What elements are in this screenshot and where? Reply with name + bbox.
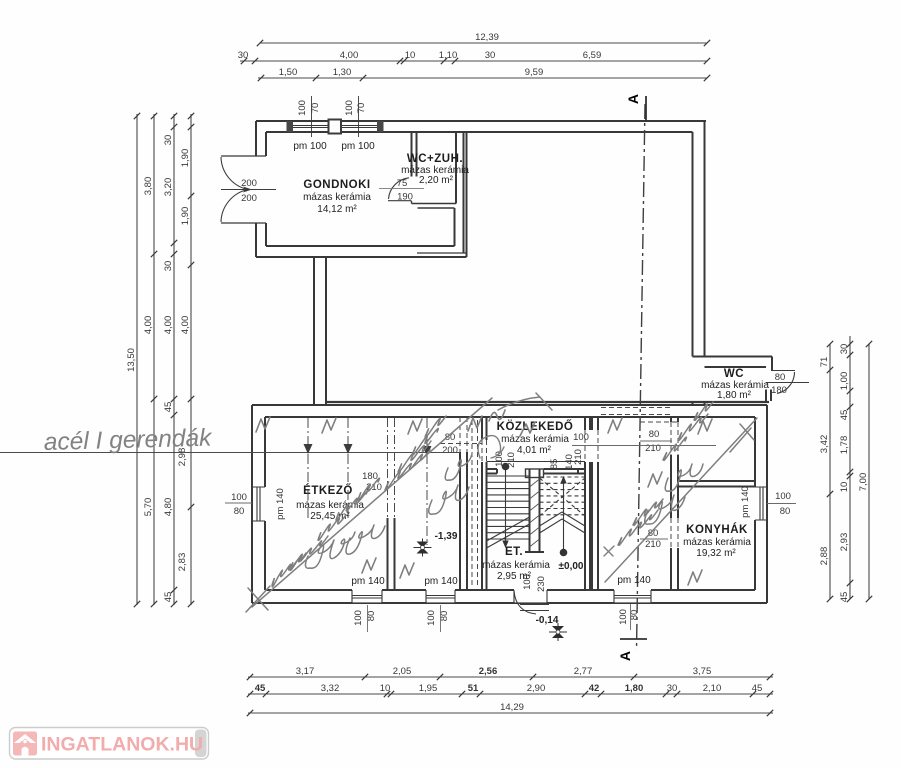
- svg-text:acél I gerendák: acél I gerendák: [43, 425, 213, 456]
- shaft dashed lines: [472, 420, 478, 588]
- svg-text:3,80: 3,80: [143, 177, 154, 196]
- section line dash-dot: [637, 104, 646, 650]
- svg-text:pm 140: pm 140: [740, 486, 751, 518]
- svg-text:45: 45: [163, 592, 174, 603]
- beam dash-dot line 2: [347, 418, 349, 520]
- svg-text:pm 100: pm 100: [293, 141, 327, 152]
- svg-text:45: 45: [163, 402, 174, 413]
- svg-text:85: 85: [549, 459, 560, 470]
- bottom wall outer white gaps for windows: [352, 591, 382, 602]
- svg-text:INGATLANOK.HU: INGATLANOK.HU: [41, 734, 203, 756]
- svg-text:GONDNOKI: GONDNOKI: [303, 179, 370, 191]
- gondnoki left wall inner: [265, 132, 267, 246]
- svg-text:2,56: 2,56: [479, 666, 498, 677]
- svg-text:WC+ZUH.: WC+ZUH.: [407, 153, 463, 165]
- kozlekedo left wall gate squiggle: [478, 436, 504, 458]
- svg-text:1,95: 1,95: [419, 683, 438, 694]
- pen check V marks: [256, 417, 270, 432]
- courtyard bottom line: [326, 401, 702, 403]
- svg-text:mázas kerámia: mázas kerámia: [501, 434, 569, 445]
- cursive band lower (k nos...): [272, 553, 306, 587]
- svg-text:mázas kerámia: mázas kerámia: [482, 560, 550, 571]
- svg-text:70: 70: [356, 103, 367, 114]
- bottom dim line 2: [248, 693, 773, 695]
- WC box top wall: [693, 356, 773, 358]
- entry door arc at bottom: [514, 591, 536, 614]
- wc door label/leader line: [766, 382, 809, 384]
- cursive loop cluster (elb..): [305, 532, 355, 568]
- svg-text:14,12 m²: 14,12 m²: [317, 204, 357, 215]
- svg-text:-0,14: -0,14: [536, 615, 559, 626]
- wc+zuh right wall: [455, 132, 457, 204]
- bottom dim line 1: [248, 676, 773, 678]
- svg-text:100: 100: [618, 609, 629, 625]
- left walking line: [505, 468, 507, 546]
- gondnoki bottom wall inner: [266, 245, 455, 247]
- svg-text:30: 30: [485, 50, 496, 61]
- svg-text:30: 30: [667, 683, 678, 694]
- svg-text:210: 210: [645, 539, 661, 550]
- svg-text:100: 100: [344, 100, 355, 116]
- wc+zuh door arc: [389, 178, 410, 199]
- svg-text:200: 200: [241, 193, 257, 204]
- logo house icon: [13, 732, 37, 756]
- middle room right wall: [460, 452, 467, 590]
- svg-text:4,00: 4,00: [163, 316, 174, 335]
- svg-text:100: 100: [426, 610, 437, 626]
- gondnoki double door arcs: [221, 157, 248, 190]
- right flight treads dashed: [540, 477, 586, 515]
- top dim line 1 (12,39): [260, 42, 707, 44]
- svg-text:42: 42: [589, 683, 600, 694]
- svg-text:3,42: 3,42: [819, 435, 830, 454]
- stair mid divider: [525, 469, 544, 552]
- svg-text:10: 10: [839, 482, 850, 493]
- svg-text:13,50: 13,50: [126, 348, 137, 372]
- right exterior wall outer: [704, 121, 706, 357]
- right wall window: [755, 487, 767, 520]
- konyhak loop cluster: [645, 495, 685, 524]
- beam arrow 2: [344, 444, 353, 454]
- svg-text:210: 210: [645, 443, 661, 454]
- wc door arc (right): [777, 372, 795, 394]
- beam arrow 1: [304, 444, 313, 454]
- gondnoki bottom wall step line: [417, 252, 467, 254]
- bottom window 1: [352, 590, 382, 603]
- svg-text:7,00: 7,00: [858, 473, 869, 492]
- svg-text:30: 30: [163, 261, 174, 272]
- svg-text:80: 80: [234, 506, 245, 517]
- wc+zuh left wall pair: [412, 132, 417, 177]
- left dim line 2: [153, 114, 155, 605]
- gondnoki left wall outer: [255, 121, 257, 257]
- corridor top door divider: [640, 440, 672, 442]
- lower block bottom wall outer: [252, 602, 767, 604]
- left dim line 1 (13,50): [136, 114, 138, 605]
- svg-text:30: 30: [163, 135, 174, 146]
- top wall window 1 glass lines: [293, 125, 329, 127]
- tick slashes: [134, 40, 872, 716]
- svg-text:2,10: 2,10: [703, 683, 722, 694]
- entry steps: [520, 605, 549, 611]
- svg-text:9,59: 9,59: [525, 67, 544, 78]
- svg-text:30: 30: [238, 50, 249, 61]
- svg-text:2,05: 2,05: [393, 666, 412, 677]
- svg-text:45: 45: [752, 683, 763, 694]
- long extension line through corridor: [572, 445, 716, 447]
- svg-text:pm 100: pm 100: [341, 141, 375, 152]
- svg-text:45: 45: [839, 592, 850, 603]
- corridor top door dashes: [601, 408, 671, 415]
- wc+zuh door open leaf: [388, 200, 412, 202]
- svg-text:ET.: ET.: [505, 546, 523, 558]
- right exterior wall inner: [692, 132, 694, 357]
- right dim line 3 (7,00): [868, 344, 870, 599]
- right flight break V: [540, 512, 586, 533]
- konyhak cursive band 2: [663, 437, 686, 460]
- left dim line 4: [190, 114, 192, 605]
- svg-text:51: 51: [468, 683, 479, 694]
- svg-text:ÉTKEZŐ: ÉTKEZŐ: [303, 484, 353, 497]
- kozlekedo landing edge line: [487, 461, 586, 463]
- svg-text:12,39: 12,39: [475, 32, 499, 43]
- cursive band upper right (dense): [385, 450, 430, 490]
- konyhak arrow on diagonal: [730, 424, 754, 452]
- svg-text:140: 140: [564, 454, 575, 470]
- svg-text:80: 80: [780, 506, 791, 517]
- kozlekedo right wall pairs: [585, 417, 598, 430]
- lower block top wall inner: [265, 416, 755, 418]
- svg-text:pm 140: pm 140: [351, 576, 385, 587]
- right dim line 1: [829, 344, 831, 599]
- wc+zuh door label line: [379, 188, 424, 190]
- svg-text:100: 100: [353, 610, 364, 626]
- left walking dot: [502, 463, 510, 471]
- etkezo diagonal top continuation: [498, 393, 552, 410]
- svg-text:10: 10: [405, 50, 416, 61]
- svg-text:19,32 m²: 19,32 m²: [696, 548, 736, 559]
- corridor mid door divider: [640, 538, 668, 540]
- top block: top wall inner: [266, 131, 693, 133]
- gondnoki door center line: [221, 189, 276, 191]
- left window label divider: [225, 502, 252, 504]
- svg-text:mázas kerámia: mázas kerámia: [303, 192, 371, 203]
- svg-text:5,70: 5,70: [143, 498, 154, 517]
- beam dash-dot line 1: [307, 418, 309, 520]
- right walking dot: [560, 549, 568, 557]
- svg-text:100: 100: [775, 491, 791, 502]
- svg-text:2,88: 2,88: [819, 547, 830, 566]
- svg-text:80: 80: [775, 372, 786, 383]
- beam dash-dot line 3: [426, 418, 428, 545]
- cursive band mid: [318, 515, 346, 540]
- dim labels: [126, 32, 869, 713]
- window extension lines: [311, 96, 313, 137]
- svg-text:1,00: 1,00: [839, 372, 850, 391]
- svg-text:3,20: 3,20: [163, 178, 174, 197]
- svg-text:45: 45: [839, 410, 850, 421]
- lower block left wall: [252, 405, 265, 603]
- window piers (solid): [287, 121, 294, 132]
- courtyard left wall double: [314, 257, 326, 405]
- svg-text:80: 80: [649, 429, 660, 440]
- etkezo partition opening: [388, 418, 395, 518]
- stairwell top wall stubs: [487, 469, 586, 474]
- svg-text:200: 200: [241, 178, 257, 189]
- svg-text:230: 230: [536, 576, 547, 592]
- svg-text:mázas kerámia: mázas kerámia: [683, 537, 751, 548]
- section mark bottom: [620, 638, 647, 640]
- svg-text:100: 100: [522, 574, 533, 590]
- svg-text:4,01 m²: 4,01 m²: [517, 445, 552, 456]
- right walking line: [563, 479, 565, 551]
- lower block right wall: [755, 405, 767, 603]
- bottom window label dividers: [367, 605, 369, 632]
- lower block bottom wall inner (with openings): [265, 589, 755, 591]
- svg-text:30: 30: [839, 344, 850, 355]
- svg-text:A: A: [625, 94, 641, 104]
- marker near -0,14: [549, 623, 567, 641]
- svg-text:2,90: 2,90: [527, 683, 546, 694]
- left flight break lines: [487, 517, 530, 548]
- etkezo partition wall: [388, 518, 395, 590]
- svg-text:1,78: 1,78: [839, 436, 850, 455]
- right walking arrow: [560, 476, 566, 484]
- marker near -1,39: [414, 539, 432, 557]
- svg-text:2,83: 2,83: [177, 553, 188, 572]
- WC box bottom wall: [702, 401, 769, 403]
- WC step below door: [766, 390, 771, 402]
- svg-text:pm 140: pm 140: [275, 488, 286, 520]
- svg-text:71: 71: [819, 357, 830, 368]
- svg-text:pm 140: pm 140: [617, 575, 651, 586]
- wc+zuh bottom wall with jamb step: [412, 201, 457, 208]
- svg-text:1,50: 1,50: [279, 67, 298, 78]
- wc door leaf: [772, 370, 795, 372]
- svg-text:pm 140: pm 140: [424, 576, 458, 587]
- left flight treads: [487, 476, 530, 539]
- wall below wc+zuh: [454, 208, 456, 246]
- svg-text:4,00: 4,00: [143, 316, 154, 335]
- svg-text:4,80: 4,80: [163, 498, 174, 517]
- left dim line 3: [173, 114, 175, 605]
- door jambs left (open leaves): [221, 155, 266, 157]
- left walking arrow: [502, 541, 508, 549]
- svg-text:1,10: 1,10: [439, 50, 458, 61]
- svg-text:200: 200: [442, 445, 458, 456]
- bottom window 3 (corridor): [614, 590, 651, 603]
- right window label divider: [767, 503, 796, 505]
- svg-text:2,93: 2,93: [839, 533, 850, 552]
- lower block top wall outer: [252, 404, 767, 406]
- pen arrow in corridor: [604, 546, 614, 556]
- middle room right wall opening: [460, 417, 467, 452]
- svg-text:1,90: 1,90: [180, 207, 191, 226]
- svg-text:100: 100: [231, 492, 247, 503]
- stair/kozlekedo left wall: [482, 417, 487, 590]
- svg-text:180: 180: [771, 385, 787, 396]
- svg-text:1,80 m²: 1,80 m²: [717, 390, 752, 401]
- svg-text:1,80: 1,80: [625, 683, 644, 694]
- konyhak sub-room divider wall: [678, 480, 755, 482]
- WC box right wall: [771, 357, 773, 372]
- svg-text:14,29: 14,29: [500, 702, 524, 713]
- top wall window 2 glass lines: [341, 125, 377, 127]
- svg-text:-1,39: -1,39: [435, 531, 458, 542]
- corridor right wall top opening: [640, 422, 678, 455]
- kozlekedo right door dashes: [585, 430, 598, 462]
- svg-text:1,90: 1,90: [180, 149, 191, 168]
- svg-text:100: 100: [573, 432, 589, 443]
- svg-text:3,17: 3,17: [296, 666, 315, 677]
- left wall window: [252, 487, 265, 521]
- bottom door jambs: [514, 590, 547, 603]
- logo box: [10, 728, 209, 760]
- svg-text:1,30: 1,30: [333, 67, 352, 78]
- shaft wall pair right of wc+zuh: [464, 132, 467, 257]
- corridor right wall mid opening: [671, 518, 678, 548]
- svg-text:4,00: 4,00: [180, 316, 191, 335]
- svg-text:6,59: 6,59: [583, 50, 602, 61]
- right exterior wall below wc: [693, 402, 705, 405]
- svg-text:WC: WC: [724, 368, 744, 380]
- corridor right wall / konyhak left wall: [671, 417, 678, 590]
- logo tab: [195, 730, 207, 758]
- svg-text:2,20 m²: 2,20 m²: [419, 175, 454, 186]
- right flight diagonals: [540, 478, 586, 516]
- svg-text:190: 190: [397, 192, 413, 203]
- svg-text:10: 10: [380, 683, 391, 694]
- stair divider hatch: [530, 479, 540, 547]
- svg-text:180: 180: [362, 471, 378, 482]
- door center arrow: [243, 187, 252, 193]
- big loops near partition: [429, 485, 469, 514]
- bottom window 2: [426, 590, 455, 603]
- etkezo long diagonal stroke: [252, 398, 492, 607]
- svg-text:100: 100: [297, 100, 308, 116]
- konyhak diagonal stroke: [605, 418, 757, 582]
- top block: top wall outer: [256, 120, 706, 122]
- etkezo diagonal end arrow bottom: [246, 586, 270, 612]
- svg-text:75: 75: [397, 178, 408, 189]
- svg-text:3,32: 3,32: [321, 683, 340, 694]
- kozlekedo left door dashes: [440, 440, 487, 462]
- top dim line 3: [258, 77, 707, 79]
- svg-text:210: 210: [506, 452, 517, 468]
- stair divider head box: [526, 469, 544, 478]
- beam leader line: [0, 452, 460, 454]
- svg-text:KONYHÁK: KONYHÁK: [686, 523, 748, 536]
- section mark top: [645, 96, 647, 121]
- konyhak cursive band 1: [618, 510, 658, 545]
- right dim line 2: [849, 336, 851, 599]
- gondnoki bottom wall outer: [256, 256, 467, 258]
- svg-text:±0,00: ±0,00: [559, 561, 584, 572]
- bottom dim line 3 (14,29): [248, 712, 773, 714]
- top dim line 2: [240, 60, 707, 62]
- svg-text:45: 45: [255, 683, 266, 694]
- svg-text:4,00: 4,00: [340, 50, 359, 61]
- beam arrow 3: [423, 446, 432, 456]
- svg-text:3,75: 3,75: [693, 666, 712, 677]
- svg-text:2,77: 2,77: [574, 666, 593, 677]
- svg-text:70: 70: [310, 103, 321, 114]
- svg-text:A: A: [617, 651, 633, 661]
